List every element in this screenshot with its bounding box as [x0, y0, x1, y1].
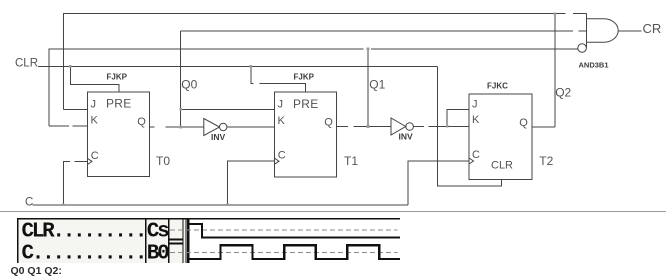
wire CLR to PRE of FF1: [251, 66, 306, 92]
simulation panel background: [18, 219, 146, 263]
svg-text:Q0 Q1 Q2:: Q0 Q1 Q2:: [11, 265, 62, 277]
inverter INV2 bubble: [406, 123, 414, 131]
wire C to clock pin FF2: [408, 161, 469, 205]
inverter INV2 triangle: [391, 118, 406, 135]
simulation panel top border: [18, 218, 400, 220]
svg-text:Q: Q: [519, 117, 528, 129]
wire Q2 vertical: [554, 14, 556, 128]
svg-text:J: J: [472, 99, 478, 111]
wire net Q2 top line1: [64, 14, 587, 110]
wire CLR to PRE of FF0: [70, 66, 119, 91]
wire C to clock pin FF0: [63, 161, 87, 204]
flip-flop T1 box FJKP: [275, 92, 337, 177]
inverter INV1 triangle: [204, 119, 220, 136]
wire J input FF1 from Q0: [181, 108, 275, 110]
svg-text:INV: INV: [211, 132, 226, 142]
clock wedge FF0: [88, 158, 93, 164]
svg-text:Q: Q: [324, 117, 333, 129]
AND gate U4 input bubble: [578, 44, 587, 53]
svg-text:Q1: Q1: [369, 78, 385, 92]
waveform C clock: [189, 245, 400, 259]
svg-text:FJKP: FJKP: [294, 73, 315, 82]
svg-text:J: J: [91, 98, 97, 110]
clock wedge FF2: [469, 158, 474, 164]
AND gate U4 back edge: [586, 14, 588, 48]
junction Q0-wire: [179, 126, 182, 129]
wire K input FF0: [49, 125, 88, 127]
junction CLR-PRE0: [69, 65, 72, 68]
svg-text:INV: INV: [399, 132, 414, 142]
svg-text:Q0: Q0: [181, 78, 197, 92]
svg-text:CLR: CLR: [491, 160, 513, 172]
svg-text:Q2: Q2: [555, 86, 571, 100]
svg-text:C: C: [472, 149, 480, 161]
wire Q0 vertical: [180, 31, 182, 127]
panel divider 2: [168, 218, 170, 263]
wire net Q0 line2: [181, 30, 587, 32]
wire gap artifacts: [69, 13, 579, 163]
svg-text:T2: T2: [539, 154, 553, 168]
dashed reference line C row: [170, 251, 398, 253]
svg-text:K: K: [472, 114, 480, 126]
svg-text:B0: B0: [147, 243, 169, 266]
junction Q1-line3: [367, 48, 370, 51]
svg-text:PRE: PRE: [293, 97, 319, 111]
AND gate U4 body: [587, 19, 619, 42]
wire Q1 vertical: [367, 49, 369, 127]
junction CLR-PRE1: [250, 65, 253, 68]
waveform CLR: [189, 224, 400, 237]
wire Q1 output to INV2: [337, 126, 392, 128]
panel divider 3: [182, 218, 184, 263]
dashed reference line CLR row: [170, 229, 398, 231]
wire J input FF0: [64, 108, 88, 110]
svg-text:CR: CR: [643, 21, 662, 36]
svg-text:PRE: PRE: [106, 96, 132, 110]
wire Q0 output to INV1: [150, 126, 204, 128]
wire J input FF2 tie: [447, 109, 469, 126]
junction J2K2: [446, 125, 449, 128]
svg-text:C: C: [91, 150, 99, 162]
inverter INV1 bubble: [220, 123, 227, 130]
junction C-FF1: [226, 204, 229, 207]
svg-text:C...........: C...........: [22, 243, 146, 266]
junction Q2-line1: [554, 12, 557, 15]
svg-text:C: C: [278, 150, 286, 162]
flip-flop T2 box FJKC: [469, 94, 532, 180]
svg-text:CLR: CLR: [15, 58, 38, 70]
wire C clock net horizontal: [33, 204, 409, 206]
svg-text:AND3B1: AND3B1: [579, 61, 609, 70]
junction Q0-J1: [179, 108, 182, 111]
svg-text:J: J: [278, 99, 284, 111]
wire net Q1 line3: [49, 49, 578, 126]
wire Q2 output from U3: [532, 126, 555, 128]
svg-text:K: K: [278, 115, 286, 127]
wire CLR to CLR pin of FF2: [438, 66, 502, 185]
separator line below schematic: [0, 211, 666, 213]
clock wedge FF1: [275, 158, 280, 164]
panel thick cursor line: [187, 218, 189, 263]
wire AND gate output to CR: [618, 30, 641, 32]
svg-text:CLR.........: CLR.........: [22, 221, 146, 244]
panel separator bars: [169, 239, 183, 241]
svg-text:C: C: [25, 196, 33, 208]
svg-text:FJKC: FJKC: [487, 82, 508, 91]
wire CLR net horizontal: [38, 65, 438, 67]
svg-text:K: K: [91, 114, 99, 126]
wire C to clock pin FF1: [228, 161, 275, 205]
simulation panel left border: [17, 218, 19, 263]
svg-text:T0: T0: [156, 154, 170, 168]
wire INV2 output to K of FF2: [414, 125, 470, 127]
svg-text:T1: T1: [344, 154, 358, 168]
flip-flop T0 box FJKP: [88, 92, 150, 177]
svg-text:Q: Q: [137, 116, 146, 128]
svg-text:FJKP: FJKP: [107, 72, 128, 81]
wire INV1 output to K of FF1: [227, 126, 275, 128]
panel thin cursor line: [185, 218, 187, 263]
junction C-FF0: [62, 204, 65, 207]
junction Q1-wire: [367, 125, 370, 128]
svg-text:Cs: Cs: [147, 221, 169, 244]
panel divider 1: [145, 218, 147, 263]
